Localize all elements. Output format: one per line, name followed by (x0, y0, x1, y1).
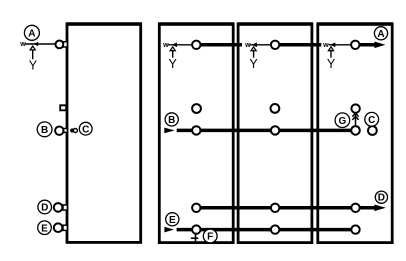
svg-text:Y: Y (249, 57, 258, 71)
svg-text:w: w (162, 42, 169, 49)
svg-text:w: w (244, 42, 251, 49)
svg-text:E: E (41, 223, 48, 234)
svg-text:G: G (339, 116, 347, 127)
svg-text:D: D (41, 203, 48, 214)
svg-text:w: w (322, 42, 329, 49)
svg-text:D: D (378, 193, 385, 204)
svg-text:A: A (28, 28, 35, 39)
svg-text:Y: Y (29, 58, 38, 72)
svg-text:F: F (207, 232, 213, 243)
svg-text:Y: Y (169, 57, 178, 71)
svg-text:E: E (169, 215, 176, 226)
svg-text:Y: Y (327, 57, 336, 71)
svg-text:B: B (168, 115, 175, 126)
svg-text:B: B (41, 125, 48, 136)
svg-text:w: w (19, 41, 26, 48)
svg-text:C: C (368, 115, 375, 126)
svg-text:C: C (82, 124, 89, 135)
svg-text:A: A (377, 29, 384, 40)
